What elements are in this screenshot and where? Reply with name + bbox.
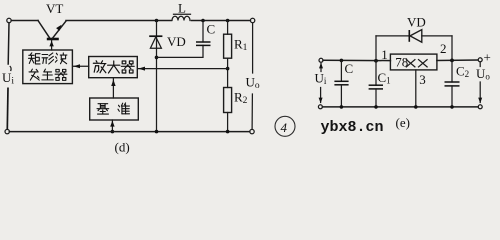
label L with underline bbox=[174, 1, 191, 16]
capacitor C2 bbox=[445, 60, 460, 107]
svg-text:1: 1 bbox=[381, 47, 388, 62]
caption (d) bbox=[115, 140, 130, 155]
inductor L bbox=[172, 16, 190, 20]
label C1 bbox=[378, 70, 391, 86]
svg-text:L: L bbox=[178, 1, 186, 16]
block 基准 (reference) bbox=[90, 98, 139, 120]
capacitor C (e) bbox=[334, 60, 348, 107]
svg-text:ybx8.cn: ybx8.cn bbox=[321, 119, 384, 136]
svg-text:C: C bbox=[345, 61, 354, 76]
block 放大器 (amplifier) bbox=[89, 57, 138, 78]
arrow amplifier to generator bbox=[73, 64, 88, 68]
label VT bbox=[46, 1, 63, 16]
svg-text:3: 3 bbox=[419, 72, 426, 87]
label C bbox=[207, 22, 216, 37]
node diode top (junction dot) bbox=[155, 19, 159, 23]
wire reference to amplifier with arrow bbox=[111, 78, 115, 98]
wire collector to diode node bbox=[66, 20, 171, 22]
wire left input vertical upper bbox=[7, 23, 10, 64]
terminal e-output top bbox=[478, 58, 482, 62]
terminal output top-right bbox=[250, 18, 254, 22]
pin 3 label bbox=[419, 72, 426, 87]
svg-text:(d): (d) bbox=[115, 140, 130, 155]
terminal output bottom-right bbox=[250, 129, 254, 133]
node R2 bottom bbox=[226, 130, 230, 134]
polarity stroke upper (Uo) bbox=[479, 63, 481, 67]
terminal e-input top bbox=[319, 58, 323, 62]
label R1 bbox=[234, 37, 248, 54]
wire right output lower bbox=[251, 94, 253, 129]
resistor R2 bbox=[224, 88, 232, 132]
svg-text:C: C bbox=[207, 22, 216, 37]
terminal input bottom-left bbox=[5, 129, 9, 133]
wire L to output terminal bbox=[192, 20, 251, 22]
svg-text:VD: VD bbox=[407, 15, 426, 30]
label Ui with prime tick bbox=[2, 67, 14, 87]
wire feedback to amplifier with arrow bbox=[138, 67, 228, 71]
node C top (e) bbox=[340, 59, 344, 63]
pin 1 label bbox=[381, 47, 388, 62]
svg-text:4: 4 bbox=[281, 120, 288, 135]
node C top bbox=[201, 19, 205, 23]
bottom rail (e) bbox=[322, 106, 478, 108]
node C2 bottom bbox=[450, 105, 454, 109]
wire rail to reference with arrow bbox=[110, 120, 114, 133]
svg-text:+: + bbox=[484, 50, 491, 65]
transistor VT bbox=[38, 21, 66, 40]
label Ui (e) bbox=[315, 71, 327, 87]
label Uo (e) bbox=[476, 66, 490, 82]
polarity arrow up (Ui) bbox=[319, 63, 323, 72]
label + polarity bbox=[484, 50, 491, 65]
label R2 bbox=[234, 90, 248, 107]
figure number circled 4 bbox=[275, 116, 295, 136]
label C2 bbox=[456, 64, 469, 80]
caption (e) bbox=[396, 115, 410, 130]
wire input top bbox=[11, 20, 38, 22]
polarity arrow down (Ui) bbox=[319, 88, 323, 104]
pin 2 label bbox=[440, 41, 447, 56]
pin 3 wire bbox=[415, 70, 417, 107]
wire right output upper bbox=[252, 23, 254, 73]
top rail (e) bbox=[323, 59, 390, 61]
diode VD (freewheel) bbox=[149, 21, 162, 132]
svg-text:(e): (e) bbox=[396, 115, 410, 130]
wire left input vertical lower bbox=[6, 88, 9, 130]
svg-text:VD: VD bbox=[167, 34, 186, 49]
node pin3 bottom bbox=[414, 105, 418, 109]
resistor R1 bbox=[224, 21, 232, 88]
node C1 bottom bbox=[374, 105, 378, 109]
capacitor C bbox=[196, 21, 211, 46]
terminal e-output bottom bbox=[478, 105, 482, 109]
node C1 top junction bbox=[374, 59, 378, 63]
svg-text:2: 2 bbox=[440, 41, 447, 56]
node R1 top bbox=[226, 19, 230, 23]
node feedback R1/R2 bbox=[226, 67, 230, 71]
label Uo bbox=[246, 75, 260, 92]
node C bottom (e) bbox=[340, 105, 344, 109]
watermark ybx8.cn bbox=[321, 119, 384, 136]
block 矩形波发生器 (rectangular wave generator) bbox=[23, 50, 73, 84]
svg-text:VT: VT bbox=[46, 1, 63, 16]
label C (e) bbox=[345, 61, 354, 76]
capacitor C1 bbox=[369, 61, 383, 107]
label VD (e) bbox=[407, 15, 426, 30]
diode VD (e) right leg bbox=[451, 36, 453, 61]
bottom rail (d) bbox=[9, 131, 249, 133]
node C bottom to diode wire bbox=[155, 45, 203, 59]
terminal e-input bottom bbox=[318, 105, 322, 109]
polarity arrow down (Uo) bbox=[478, 82, 482, 103]
transistor VT base lead with arrow bbox=[49, 40, 53, 50]
node diode bottom bbox=[155, 130, 159, 134]
regulator U1 box 78×× bbox=[390, 54, 437, 70]
node C2 top bbox=[450, 59, 454, 63]
diode VD (e) bbox=[376, 30, 452, 43]
pin 2 wire bbox=[437, 59, 478, 62]
paper background bbox=[0, 0, 500, 156]
label VD bbox=[167, 34, 186, 49]
diode VD (e) left leg bbox=[375, 36, 377, 61]
terminal input top-left bbox=[7, 18, 11, 22]
